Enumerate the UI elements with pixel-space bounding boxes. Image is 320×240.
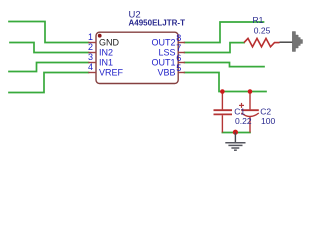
- wire net from pin 7 (LSS) to R1: [185, 43, 245, 53]
- pin 7 stub: [178, 52, 185, 54]
- port lead wire: [280, 41, 293, 43]
- svg-text:OUT2: OUT2: [151, 37, 175, 47]
- pin 6 stub: [178, 62, 185, 64]
- svg-text:5: 5: [176, 63, 181, 73]
- port symbol (gray stepped arrow): [292, 32, 302, 52]
- wire net to pin 4 (VREF): [9, 73, 89, 93]
- svg-text:0.25: 0.25: [254, 26, 271, 36]
- capacitor C2 (polarized): [241, 92, 258, 133]
- svg-text:6: 6: [176, 53, 181, 63]
- svg-text:C2: C2: [260, 106, 271, 116]
- junction dot at C1 top: [220, 89, 225, 94]
- pin 1 indicator dot: [98, 34, 102, 38]
- wire net from pin 8 (OUT2): [185, 22, 264, 43]
- ground symbol: [225, 133, 245, 151]
- wire net from pin 6 (OUT1): [185, 63, 265, 67]
- C2 polarity plus sign: [239, 103, 244, 108]
- svg-text:100: 100: [261, 116, 275, 126]
- svg-text:4: 4: [88, 62, 93, 72]
- svg-text:IN2: IN2: [99, 47, 113, 57]
- wire net to pin 1 (GND): [9, 22, 89, 43]
- pin 2 stub: [88, 52, 96, 54]
- pin 5 stub: [178, 72, 185, 74]
- resistor R1 zigzag: [244, 38, 280, 46]
- IC U2 body (A4950ELJTR-T motor driver): [96, 32, 178, 83]
- junction dot at C2 top: [248, 89, 253, 94]
- svg-text:VBB: VBB: [157, 67, 175, 77]
- pin 3 stub: [88, 62, 96, 64]
- svg-text:R1: R1: [253, 15, 264, 25]
- svg-text:OUT1: OUT1: [151, 57, 175, 67]
- svg-text:GND: GND: [99, 37, 120, 47]
- pin 8 stub: [178, 42, 185, 44]
- svg-text:3: 3: [88, 52, 93, 62]
- pin 4 stub: [88, 72, 96, 74]
- wire between capacitor bottoms: [222, 132, 250, 134]
- svg-text:0.22: 0.22: [235, 116, 252, 126]
- pin 1 stub: [88, 42, 96, 44]
- svg-text:IN1: IN1: [99, 57, 113, 67]
- svg-text:LSS: LSS: [158, 47, 175, 57]
- capacitor C1: [214, 92, 233, 133]
- wire net to pin 3 (IN1): [9, 63, 89, 72]
- svg-text:7: 7: [176, 43, 181, 53]
- wire net to pin 2 (IN2): [10, 43, 89, 53]
- svg-text:VREF: VREF: [99, 67, 124, 77]
- svg-text:8: 8: [176, 33, 181, 43]
- svg-text:A4950ELJTR-T: A4950ELJTR-T: [129, 19, 186, 28]
- svg-text:1: 1: [88, 32, 93, 42]
- svg-text:2: 2: [88, 42, 93, 52]
- svg-text:C1: C1: [234, 106, 245, 116]
- wire net from pin 5 (VBB) to capacitors: [185, 73, 267, 92]
- junction dot at ground node: [233, 130, 238, 135]
